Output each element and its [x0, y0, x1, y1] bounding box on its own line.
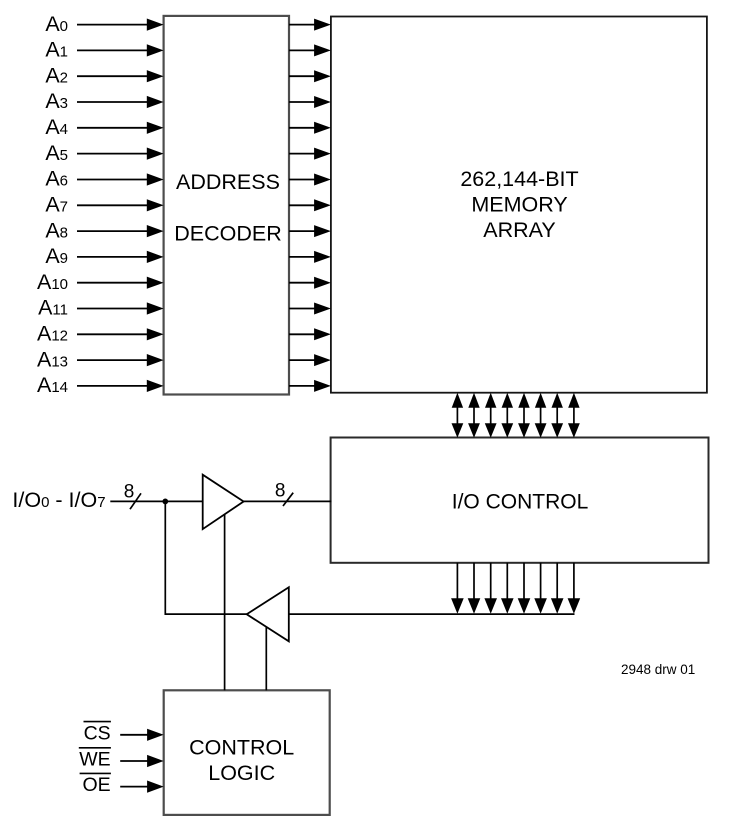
svg-text:WE: WE: [79, 749, 110, 771]
svg-text:8: 8: [124, 481, 135, 502]
svg-text:CS: CS: [84, 722, 111, 744]
svg-text:DECODER: DECODER: [174, 222, 282, 246]
svg-text:CONTROL: CONTROL: [189, 736, 294, 760]
svg-text:LOGIC: LOGIC: [208, 761, 275, 785]
svg-text:8: 8: [275, 481, 286, 502]
svg-text:2948 drw 01: 2948 drw 01: [621, 662, 695, 677]
svg-text:ARRAY: ARRAY: [483, 218, 555, 242]
svg-text:I/O0 - I/O7: I/O0 - I/O7: [12, 488, 105, 512]
svg-text:262,144-BIT: 262,144-BIT: [460, 167, 578, 191]
svg-text:MEMORY: MEMORY: [471, 193, 567, 217]
svg-text:I/O CONTROL: I/O CONTROL: [452, 491, 589, 514]
svg-text:OE: OE: [83, 774, 111, 796]
svg-text:ADDRESS: ADDRESS: [176, 170, 280, 194]
